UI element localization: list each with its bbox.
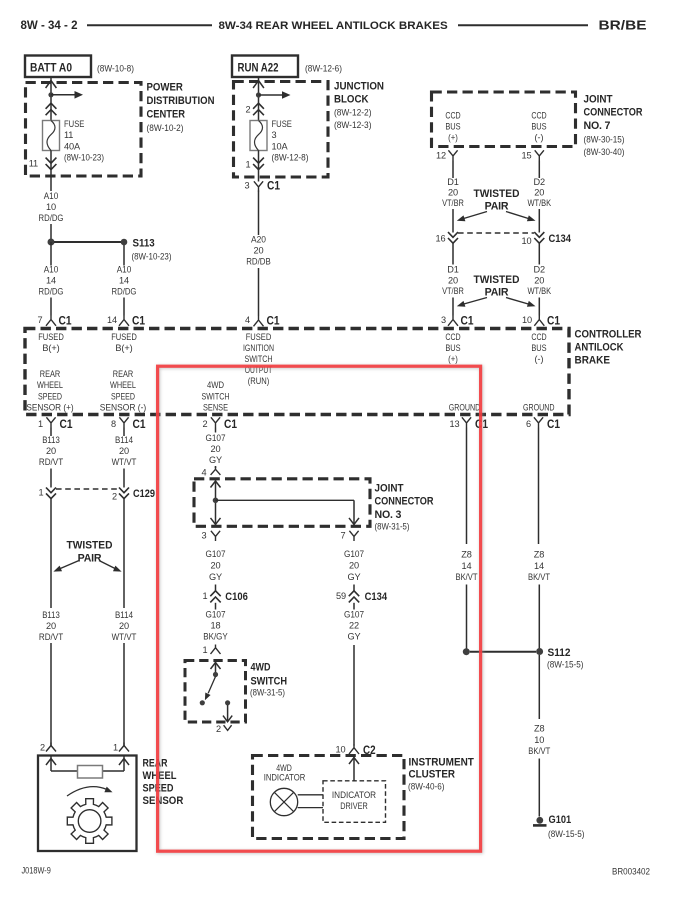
switch throw contact left bbox=[200, 700, 205, 705]
svg-text:(8W-10-2): (8W-10-2) bbox=[147, 122, 184, 133]
svg-text:J018W-9: J018W-9 bbox=[22, 866, 51, 876]
svg-text:(8W-10-23): (8W-10-23) bbox=[64, 153, 104, 163]
wire Z8 10 BK/VT bbox=[538, 655, 540, 719]
svg-text:GY: GY bbox=[209, 455, 222, 465]
instrument cluster box bbox=[253, 756, 405, 839]
svg-text:B(+): B(+) bbox=[42, 343, 59, 353]
svg-text:GROUND: GROUND bbox=[523, 403, 555, 413]
node junction in JB bbox=[256, 92, 261, 97]
wire G107 20 GY from pin 2 bbox=[215, 428, 217, 433]
svg-text:D2: D2 bbox=[534, 177, 546, 187]
4WD switch box bbox=[185, 661, 246, 723]
svg-text:WT/VT: WT/VT bbox=[112, 457, 137, 467]
lamp to driver bus bbox=[298, 794, 323, 796]
svg-text:B114: B114 bbox=[115, 610, 133, 620]
svg-text:(8W-10-8): (8W-10-8) bbox=[97, 63, 134, 74]
switch entry wire bbox=[215, 661, 217, 675]
svg-text:6: 6 bbox=[526, 419, 531, 429]
wire D1 20 VT/BR upper bbox=[452, 161, 454, 179]
svg-text:REAR: REAR bbox=[40, 369, 61, 379]
svg-text:1: 1 bbox=[203, 591, 208, 601]
svg-text:CCD: CCD bbox=[531, 111, 547, 121]
svg-text:GY: GY bbox=[347, 572, 360, 582]
svg-text:JUNCTION: JUNCTION bbox=[334, 81, 384, 93]
svg-text:14: 14 bbox=[534, 561, 544, 571]
svg-text:40A: 40A bbox=[64, 141, 81, 151]
wire RUN A22 to fuse 3 bbox=[258, 77, 260, 121]
svg-text:D1: D1 bbox=[447, 177, 459, 187]
svg-text:SENSOR (-): SENSOR (-) bbox=[100, 403, 147, 413]
svg-text:TWISTED: TWISTED bbox=[67, 540, 113, 552]
svg-text:FUSE: FUSE bbox=[272, 119, 292, 129]
svg-text:G107: G107 bbox=[344, 549, 364, 559]
svg-text:INDICATOR: INDICATOR bbox=[264, 773, 306, 783]
svg-text:D2: D2 bbox=[534, 265, 546, 275]
svg-text:8: 8 bbox=[111, 419, 116, 429]
svg-text:(8W-15-5): (8W-15-5) bbox=[547, 659, 584, 670]
svg-text:GY: GY bbox=[347, 632, 360, 642]
sensor coil wiring bbox=[51, 770, 78, 772]
svg-text:CENTER: CENTER bbox=[147, 108, 186, 120]
rear wheel speed sensor box bbox=[38, 756, 137, 852]
svg-text:C1: C1 bbox=[132, 315, 145, 328]
power distribution center box bbox=[26, 83, 142, 177]
svg-text:(-): (-) bbox=[535, 354, 544, 364]
svg-text:16: 16 bbox=[436, 234, 446, 244]
wire label B114 20 WT/VT lower bbox=[109, 608, 139, 643]
svg-text:(8W-15-5): (8W-15-5) bbox=[548, 828, 585, 839]
rotation arrow arc bbox=[67, 787, 107, 796]
label TWISTED PAIR left bbox=[63, 539, 118, 565]
connector chevrons in JB bbox=[253, 103, 264, 115]
svg-text:4WD: 4WD bbox=[251, 662, 271, 674]
wire A10 14 RD/DG right branch bbox=[123, 245, 125, 266]
svg-text:BR/BE: BR/BE bbox=[599, 19, 647, 33]
svg-text:2: 2 bbox=[246, 105, 251, 115]
svg-text:G107: G107 bbox=[205, 610, 225, 620]
svg-text:INSTRUMENT: INSTRUMENT bbox=[409, 757, 475, 769]
svg-text:NO. 7: NO. 7 bbox=[584, 120, 611, 132]
svg-text:14: 14 bbox=[107, 315, 117, 325]
svg-text:12: 12 bbox=[436, 151, 446, 161]
cluster entry wire bbox=[353, 756, 355, 782]
connector chevrons below fuse 11 bbox=[46, 158, 57, 170]
svg-text:WHEEL: WHEEL bbox=[37, 380, 63, 390]
svg-text:22: 22 bbox=[349, 621, 359, 631]
svg-text:20: 20 bbox=[448, 275, 458, 285]
svg-text:8W-34 REAR WHEEL ANTILOCK BRAK: 8W-34 REAR WHEEL ANTILOCK BRAKES bbox=[219, 20, 449, 32]
svg-text:11: 11 bbox=[64, 130, 73, 140]
svg-text:13: 13 bbox=[450, 419, 460, 429]
wire A10 to splice bbox=[50, 224, 52, 242]
svg-text:14: 14 bbox=[46, 276, 56, 286]
svg-text:7: 7 bbox=[341, 531, 346, 541]
svg-text:FUSED: FUSED bbox=[111, 332, 137, 342]
svg-text:G107: G107 bbox=[205, 433, 225, 443]
ground G101 bbox=[536, 817, 543, 824]
svg-text:C1: C1 bbox=[547, 315, 560, 328]
wire B113 20 RD/VT upper bbox=[50, 428, 52, 437]
svg-text:PAIR: PAIR bbox=[78, 553, 102, 565]
svg-text:1: 1 bbox=[113, 743, 118, 753]
svg-text:BRAKE: BRAKE bbox=[575, 355, 611, 367]
svg-text:ANTILOCK: ANTILOCK bbox=[575, 342, 624, 354]
svg-text:3: 3 bbox=[441, 315, 446, 325]
svg-text:(RUN): (RUN) bbox=[248, 376, 270, 386]
svg-text:20: 20 bbox=[119, 621, 129, 631]
svg-text:IGNITION: IGNITION bbox=[243, 343, 274, 353]
svg-text:CONNECTOR: CONNECTOR bbox=[584, 107, 643, 119]
battery feed box BATT A0 bbox=[25, 56, 91, 78]
svg-text:14: 14 bbox=[462, 561, 472, 571]
svg-text:20: 20 bbox=[46, 446, 56, 456]
svg-text:RD/DG: RD/DG bbox=[39, 213, 64, 223]
joint connector no 3 box bbox=[194, 479, 370, 527]
wire label B113 20 RD/VT lower bbox=[36, 608, 66, 643]
svg-text:VT/BR: VT/BR bbox=[442, 198, 464, 208]
svg-text:C1: C1 bbox=[461, 315, 474, 328]
svg-text:20: 20 bbox=[119, 446, 129, 456]
svg-text:C1: C1 bbox=[267, 315, 280, 328]
svg-text:10: 10 bbox=[46, 202, 56, 212]
svg-text:C134: C134 bbox=[365, 591, 388, 603]
svg-text:GY: GY bbox=[209, 572, 222, 582]
wire D2 20 WT/BK upper bbox=[538, 161, 540, 179]
4WD indicator lamp bbox=[270, 788, 297, 815]
svg-text:RD/VT: RD/VT bbox=[39, 457, 64, 467]
svg-text:FUSE: FUSE bbox=[64, 119, 84, 129]
svg-text:1: 1 bbox=[203, 645, 208, 655]
svg-text:C129: C129 bbox=[133, 488, 155, 500]
tone wheel gear bbox=[67, 799, 112, 844]
JC3 internal wire left bbox=[215, 479, 217, 527]
svg-text:DISTRIBUTION: DISTRIBUTION bbox=[147, 95, 215, 107]
svg-text:B114: B114 bbox=[115, 435, 133, 445]
switch common contact bbox=[213, 672, 218, 677]
wire Z8 14 BK/VT left bbox=[466, 428, 468, 545]
svg-text:BATT A0: BATT A0 bbox=[30, 61, 72, 75]
svg-text:20: 20 bbox=[448, 187, 458, 197]
svg-text:3: 3 bbox=[272, 130, 277, 140]
highlight rectangle bbox=[158, 366, 481, 851]
svg-text:B113: B113 bbox=[42, 435, 60, 445]
svg-text:20: 20 bbox=[349, 560, 359, 570]
svg-text:Z8: Z8 bbox=[534, 724, 544, 734]
svg-text:20: 20 bbox=[211, 444, 221, 454]
svg-text:FUSED: FUSED bbox=[38, 332, 64, 342]
svg-text:(+): (+) bbox=[448, 133, 458, 143]
svg-text:4WD: 4WD bbox=[276, 763, 292, 773]
svg-text:(+): (+) bbox=[448, 354, 458, 364]
highlight rectangle shadow bbox=[158, 367, 481, 852]
svg-text:BLOCK: BLOCK bbox=[334, 94, 369, 106]
svg-text:Z8: Z8 bbox=[534, 550, 544, 560]
svg-text:G107: G107 bbox=[344, 610, 364, 620]
svg-text:POWER: POWER bbox=[147, 82, 184, 94]
svg-text:C106: C106 bbox=[225, 591, 248, 603]
svg-text:CCD: CCD bbox=[445, 111, 461, 121]
svg-text:(8W-31-5): (8W-31-5) bbox=[375, 521, 410, 532]
svg-text:2: 2 bbox=[216, 724, 221, 734]
svg-text:RD/DG: RD/DG bbox=[39, 287, 64, 297]
svg-text:A20: A20 bbox=[251, 235, 266, 245]
svg-text:14: 14 bbox=[119, 276, 129, 286]
svg-text:BUS: BUS bbox=[445, 122, 460, 132]
svg-text:RD/VT: RD/VT bbox=[39, 632, 64, 642]
switch output wire bbox=[227, 705, 229, 722]
svg-text:2: 2 bbox=[203, 419, 208, 429]
svg-text:(8W-31-5): (8W-31-5) bbox=[250, 687, 285, 698]
svg-text:DRIVER: DRIVER bbox=[340, 801, 368, 811]
switch blade open bbox=[208, 677, 215, 694]
svg-text:4WD: 4WD bbox=[207, 380, 224, 390]
svg-text:BK/VT: BK/VT bbox=[456, 572, 478, 582]
svg-text:11: 11 bbox=[29, 159, 38, 169]
wire left to sensor bbox=[50, 499, 52, 746]
svg-text:WHEEL: WHEEL bbox=[110, 380, 136, 390]
svg-text:4: 4 bbox=[202, 468, 207, 478]
svg-text:15: 15 bbox=[522, 151, 532, 161]
JC3 internal wire right bbox=[353, 500, 355, 526]
svg-text:(8W-12-3): (8W-12-3) bbox=[334, 119, 372, 130]
indicator driver box bbox=[323, 781, 386, 823]
svg-text:TWISTED: TWISTED bbox=[474, 188, 520, 200]
svg-text:GROUND: GROUND bbox=[449, 403, 481, 413]
wire A10 14 RD/DG left branch bbox=[50, 242, 52, 266]
svg-text:BK/VT: BK/VT bbox=[528, 572, 550, 582]
svg-text:RD/DG: RD/DG bbox=[112, 287, 137, 297]
svg-text:10: 10 bbox=[522, 315, 532, 325]
wire D2 20 WT/BK lower bbox=[538, 244, 540, 265]
svg-text:10A: 10A bbox=[272, 141, 289, 151]
svg-text:(8W-12-2): (8W-12-2) bbox=[334, 107, 372, 118]
wire D1 20 VT/BR lower bbox=[452, 244, 454, 265]
svg-text:20: 20 bbox=[211, 560, 221, 570]
svg-text:20: 20 bbox=[534, 187, 544, 197]
svg-text:BR003402: BR003402 bbox=[612, 867, 650, 877]
svg-text:NO. 3: NO. 3 bbox=[375, 509, 402, 521]
svg-text:BUS: BUS bbox=[531, 122, 546, 132]
svg-text:59: 59 bbox=[336, 591, 346, 601]
svg-text:WT/BK: WT/BK bbox=[528, 286, 552, 296]
svg-text:CONNECTOR: CONNECTOR bbox=[375, 496, 434, 508]
svg-text:CCD: CCD bbox=[445, 332, 461, 342]
svg-text:2: 2 bbox=[112, 492, 117, 502]
svg-text:RUN A22: RUN A22 bbox=[238, 61, 279, 75]
fuse F3 10A bbox=[250, 121, 267, 151]
svg-text:1: 1 bbox=[39, 488, 44, 498]
svg-text:B113: B113 bbox=[42, 610, 60, 620]
svg-text:B(+): B(+) bbox=[115, 343, 132, 353]
svg-text:20: 20 bbox=[46, 621, 56, 631]
svg-text:BK/GY: BK/GY bbox=[203, 632, 228, 642]
svg-text:SWITCH: SWITCH bbox=[245, 354, 273, 364]
svg-text:JOINT: JOINT bbox=[584, 94, 613, 106]
svg-text:A10: A10 bbox=[44, 265, 59, 275]
wire Z8 14 BK/VT right bbox=[538, 428, 540, 545]
svg-text:A10: A10 bbox=[117, 265, 132, 275]
svg-text:PAIR: PAIR bbox=[485, 287, 509, 299]
svg-text:BUS: BUS bbox=[445, 343, 460, 353]
svg-text:C1: C1 bbox=[60, 418, 73, 431]
arrowhead into RUN A22 bbox=[253, 81, 264, 89]
svg-text:C1: C1 bbox=[267, 180, 280, 193]
svg-text:SENSE: SENSE bbox=[203, 403, 228, 413]
wire right to sensor bbox=[123, 499, 125, 746]
svg-text:(8W-30-15): (8W-30-15) bbox=[584, 134, 625, 145]
svg-text:WT/BK: WT/BK bbox=[528, 198, 552, 208]
svg-text:JOINT: JOINT bbox=[375, 483, 404, 495]
ignition feed box RUN A22 bbox=[232, 56, 298, 78]
svg-text:PAIR: PAIR bbox=[485, 201, 509, 213]
connector chevrons below fuse 3 bbox=[253, 158, 264, 170]
svg-text:C1: C1 bbox=[133, 418, 146, 431]
splice S112 bbox=[463, 648, 470, 655]
header rule left bbox=[87, 24, 212, 26]
svg-text:RD/DB: RD/DB bbox=[246, 257, 271, 267]
feed wire to other circuits in JB bbox=[259, 94, 283, 96]
svg-text:REAR: REAR bbox=[143, 758, 168, 770]
svg-text:S112: S112 bbox=[548, 647, 571, 659]
svg-text:(8W-12-8): (8W-12-8) bbox=[272, 153, 309, 163]
svg-text:10: 10 bbox=[336, 745, 346, 755]
svg-text:CCD: CCD bbox=[531, 332, 547, 342]
svg-text:TWISTED: TWISTED bbox=[474, 274, 520, 286]
twisted pair arrows upper bbox=[462, 212, 487, 220]
svg-text:C1: C1 bbox=[224, 418, 237, 431]
svg-text:18: 18 bbox=[211, 621, 221, 631]
twisted pair arrows lower bbox=[462, 298, 487, 305]
svg-text:Z8: Z8 bbox=[461, 550, 471, 560]
svg-text:1: 1 bbox=[246, 160, 251, 170]
svg-text:G101: G101 bbox=[549, 814, 572, 826]
switch throw contact right bbox=[225, 700, 230, 705]
svg-text:C134: C134 bbox=[549, 233, 572, 245]
svg-text:10: 10 bbox=[534, 735, 544, 745]
svg-text:BK/VT: BK/VT bbox=[528, 746, 550, 756]
svg-text:20: 20 bbox=[254, 246, 264, 256]
svg-text:CLUSTER: CLUSTER bbox=[409, 769, 456, 781]
node junction in PDC bbox=[48, 92, 53, 97]
svg-text:SENSOR: SENSOR bbox=[143, 795, 184, 807]
twisted pair arrows left bbox=[58, 561, 79, 570]
feed wire to other circuits bbox=[51, 94, 75, 96]
joint connector no 7 box bbox=[432, 92, 576, 147]
resistor pickup coil bbox=[78, 766, 103, 779]
JC3 node junction bbox=[213, 498, 219, 504]
fuse F11 40A bbox=[43, 121, 60, 151]
connector chevrons in PDC bbox=[46, 103, 57, 115]
svg-text:A10: A10 bbox=[44, 191, 59, 201]
svg-text:4: 4 bbox=[245, 315, 250, 325]
header rule right bbox=[458, 24, 588, 26]
svg-text:G107: G107 bbox=[205, 549, 225, 559]
svg-text:3: 3 bbox=[245, 181, 250, 191]
svg-text:BUS: BUS bbox=[531, 343, 546, 353]
wire BATT A0 to fuse 11 bbox=[50, 77, 52, 121]
svg-text:S113: S113 bbox=[133, 238, 155, 250]
svg-text:CONTROLLER: CONTROLLER bbox=[575, 329, 642, 341]
wire A20 20 RD/DB bbox=[258, 191, 260, 236]
svg-text:(-): (-) bbox=[535, 133, 544, 143]
wire B114 20 WT/VT upper bbox=[123, 428, 125, 437]
svg-text:REAR: REAR bbox=[113, 369, 134, 379]
svg-text:1: 1 bbox=[38, 419, 43, 429]
svg-text:WT/VT: WT/VT bbox=[112, 632, 137, 642]
svg-text:INDICATOR: INDICATOR bbox=[332, 790, 376, 800]
svg-text:FUSED: FUSED bbox=[246, 332, 272, 342]
svg-text:3: 3 bbox=[202, 531, 207, 541]
svg-text:SWITCH: SWITCH bbox=[202, 391, 230, 401]
svg-text:SPEED: SPEED bbox=[111, 391, 135, 401]
svg-text:C1: C1 bbox=[59, 315, 72, 328]
svg-text:SENSOR (+): SENSOR (+) bbox=[26, 403, 73, 413]
svg-text:(8W-40-6): (8W-40-6) bbox=[408, 781, 445, 792]
svg-text:(8W-30-40): (8W-30-40) bbox=[584, 146, 625, 157]
svg-text:(8W-10-23): (8W-10-23) bbox=[132, 251, 172, 262]
svg-text:D1: D1 bbox=[447, 265, 459, 275]
svg-text:7: 7 bbox=[38, 315, 43, 325]
arrowhead into BATT A0 bbox=[46, 81, 57, 89]
splice S113 bbox=[48, 239, 55, 246]
svg-text:8W - 34 - 2: 8W - 34 - 2 bbox=[21, 19, 78, 32]
svg-text:C1: C1 bbox=[547, 418, 560, 431]
controller antilock brake box bbox=[25, 329, 569, 415]
svg-text:2: 2 bbox=[40, 743, 45, 753]
svg-text:20: 20 bbox=[534, 275, 544, 285]
sensor entry wires and arrows bbox=[50, 756, 52, 772]
svg-text:VT/BR: VT/BR bbox=[442, 286, 464, 296]
JC3 internal bus wire bbox=[216, 499, 355, 501]
svg-text:(8W-12-6): (8W-12-6) bbox=[305, 63, 342, 74]
svg-text:10: 10 bbox=[522, 236, 532, 246]
junction block box bbox=[234, 82, 329, 178]
svg-text:SPEED: SPEED bbox=[38, 391, 62, 401]
